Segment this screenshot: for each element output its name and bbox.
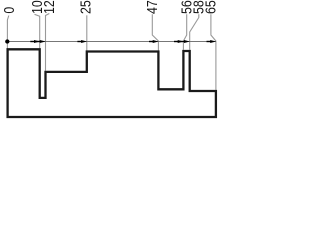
arrow at 12: [40, 40, 46, 43]
arrow at 47: [153, 40, 159, 43]
arrow at 25: [81, 40, 87, 43]
svg-text:47: 47: [144, 0, 161, 14]
profile outline: [8, 49, 216, 117]
arrow at 10: [34, 40, 40, 43]
arrow tail at 12: [36, 41, 41, 43]
svg-text:65: 65: [203, 0, 220, 14]
leader/extension line 47: [152, 14, 158, 50]
arrow tail at 58: [180, 41, 185, 43]
arrow tail at 25: [77, 41, 82, 43]
leader/extension line 56: [183, 14, 186, 50]
arrow at 56: [178, 40, 184, 43]
arrow tail at 10: [30, 41, 35, 43]
arrow tail at 65: [207, 41, 212, 43]
svg-text:0: 0: [1, 7, 18, 14]
leader/extension line 10: [35, 14, 40, 48]
arrow at 58: [184, 40, 190, 43]
leader/extension line 65: [211, 14, 216, 90]
dimension line: [7, 41, 216, 43]
leader/extension line 0: [7, 16, 8, 49]
leader/extension line 12: [46, 14, 50, 71]
arrow at 65: [210, 40, 216, 43]
leader/extension line 58: [190, 14, 199, 50]
origin dot (node 0): [5, 39, 9, 43]
svg-text:25: 25: [78, 0, 95, 14]
svg-text:12: 12: [41, 0, 58, 14]
leader/extension line 25: [86, 15, 88, 50]
arrow tail at 56: [174, 41, 179, 43]
arrow tail at 47: [149, 41, 154, 43]
